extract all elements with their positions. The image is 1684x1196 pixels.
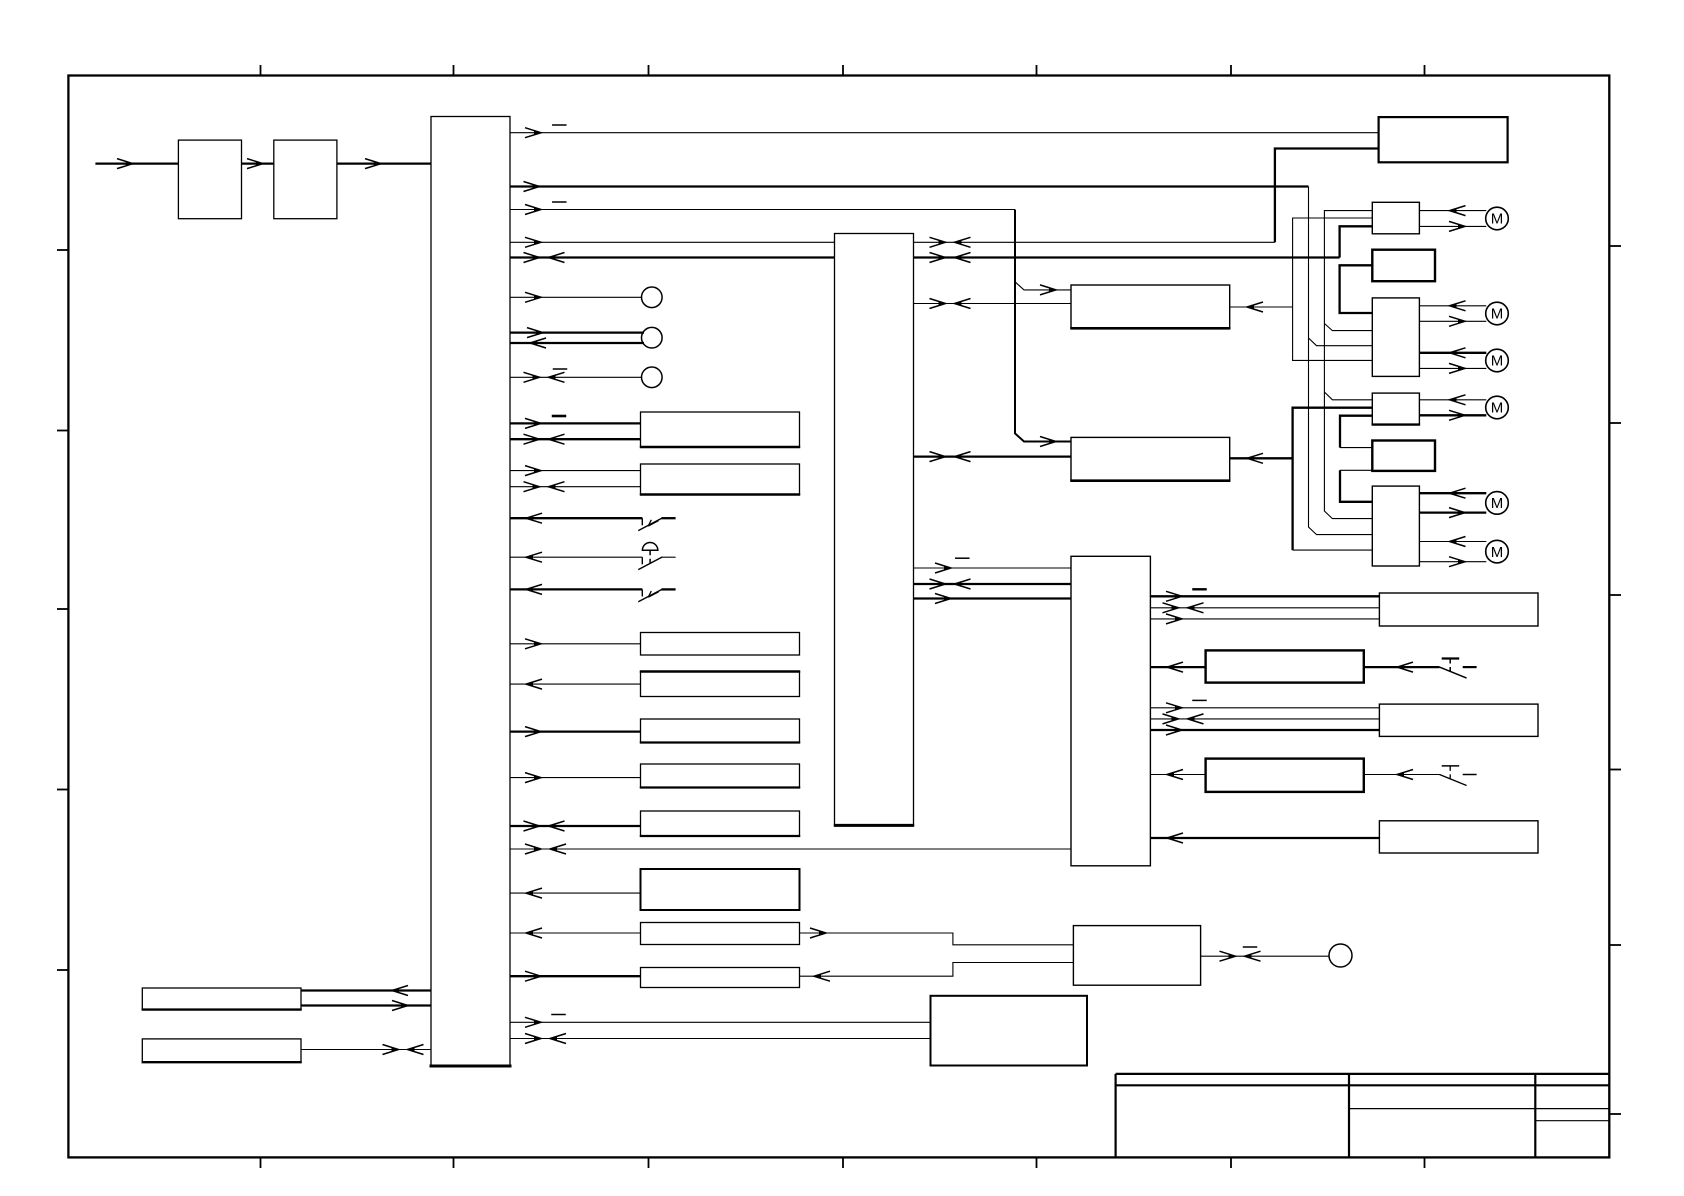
block driver D: [1372, 393, 1419, 425]
wire line1 to top box: [510, 132, 1379, 134]
block R3 right sensor: [1379, 704, 1538, 736]
block row4 sensor: [641, 672, 800, 697]
wire A to M1: [1419, 210, 1486, 212]
label overbar line25: [551, 1014, 566, 1016]
switch S1: [641, 518, 643, 525]
wire to row2 a: [510, 470, 641, 472]
lamp indicator 4: [1329, 944, 1352, 967]
block top-right module: [1379, 117, 1508, 162]
wire bus V2b relay2 to boxes D F: [1293, 408, 1373, 550]
block R4 right module: [1206, 759, 1364, 792]
block driver A: [1372, 202, 1419, 234]
block driver C: [1372, 298, 1419, 377]
wire to switch S1: [510, 517, 642, 519]
label overbar line1: [552, 124, 567, 126]
wire line3: [510, 209, 1015, 211]
motor M1: [1486, 207, 1509, 230]
switch S3: [641, 589, 643, 596]
block module B: [1372, 250, 1435, 282]
wire C to M3: [1419, 352, 1486, 354]
relay K2: [1071, 437, 1230, 480]
block X1 input filter: [178, 140, 241, 219]
block R2 right module: [1206, 650, 1364, 682]
wire G to lamp: [1201, 955, 1330, 957]
wire to row5: [510, 730, 641, 732]
wire R1 feed c: [1150, 618, 1379, 620]
block R1 right sensor: [1379, 593, 1538, 626]
wire L1 upper: [301, 989, 431, 991]
wire J2 to right unit pin1: [914, 567, 1072, 569]
wire tap to relay1: [1015, 282, 1071, 290]
wire R4 thermal line: [1364, 774, 1440, 776]
wire input line: [95, 162, 178, 164]
wire line6 to lamp: [510, 296, 642, 298]
wire R3 feed b: [1150, 718, 1379, 720]
wire to row4: [510, 683, 641, 685]
motor M3: [1486, 349, 1509, 372]
wire V1 top box feed: [1275, 149, 1379, 243]
label overbar R1: [1192, 588, 1207, 590]
lamp indicator 3: [642, 367, 663, 388]
wire R2 thermal line: [1364, 666, 1440, 668]
svg-text:M: M: [1491, 211, 1504, 228]
wire bus V2 relay1 to boxes A C: [1293, 218, 1373, 360]
wire R5 to unit: [1150, 837, 1379, 839]
block R5 right sensor: [1379, 821, 1538, 853]
wire line4 seg b: [914, 241, 1275, 243]
wire line25 to box H: [510, 1021, 931, 1023]
label overbar pin1: [955, 557, 970, 559]
border ruler ticks bottom: [260, 1157, 262, 1169]
title block frame: [1116, 1073, 1610, 1075]
thermal switch TS2: [1440, 775, 1467, 786]
wire bracket box E to box F: [1340, 469, 1372, 471]
block row9 sensor: [641, 923, 800, 945]
wire relay K1 output: [1230, 306, 1293, 308]
wire D to M4: [1419, 399, 1486, 401]
svg-text:M: M: [1491, 544, 1504, 561]
motor M2: [1486, 302, 1509, 325]
block row8 sensor: [641, 869, 800, 910]
wire line8 to lamp 3: [510, 376, 642, 378]
wire bracket line5 to box A: [1340, 226, 1373, 257]
wire J2 to right unit pin2: [914, 583, 1072, 585]
title block inner line right: [1535, 1120, 1609, 1122]
wire R3 feed a: [1150, 707, 1379, 709]
motor M5: [1486, 492, 1509, 515]
wire line5 seg b: [914, 256, 1340, 258]
connector J2 intermediate: [835, 234, 914, 826]
wire to row3: [510, 643, 641, 645]
label overbar R3: [1192, 699, 1207, 701]
relay K1: [1071, 285, 1230, 328]
wire bracket box D to box E: [1340, 416, 1372, 448]
wire line21 long to right unit: [510, 848, 1071, 850]
wire F to M6: [1419, 541, 1486, 543]
block H bottom module: [931, 996, 1088, 1066]
wire R1 feed b: [1150, 607, 1379, 609]
label overbar line3: [552, 201, 567, 203]
wire bracket box B to box C: [1340, 265, 1373, 313]
block row2 sensor: [641, 464, 800, 495]
wire line5 seg a: [510, 256, 835, 258]
border ruler ticks left: [57, 249, 70, 251]
svg-text:M: M: [1491, 306, 1504, 323]
block row6 sensor: [641, 764, 800, 788]
lamp indicator 1: [642, 287, 663, 308]
wire R4 to unit: [1150, 774, 1205, 776]
block row1 sensor: [641, 412, 800, 447]
arrow relay2 feed: [1040, 437, 1056, 447]
label overbar row1: [552, 415, 567, 418]
border ruler ticks right: [1609, 245, 1622, 247]
connector J1 main control unit: [431, 117, 510, 1067]
wire line4 seg a: [510, 241, 835, 243]
wire row10 to box G: [800, 963, 1074, 977]
block X2 input filter: [274, 140, 337, 219]
wire X2 to main connector: [337, 162, 431, 164]
wire L1 lower: [301, 1004, 431, 1006]
block L2 left sensor: [142, 1039, 301, 1062]
border ruler ticks top: [260, 65, 262, 77]
block row3 sensor: [641, 633, 800, 656]
wire R3 feed c: [1150, 729, 1379, 731]
wire to row7: [510, 825, 641, 827]
svg-text:M: M: [1491, 400, 1504, 417]
block row10 sensor: [641, 968, 800, 988]
lamp indicator 2: [642, 327, 663, 348]
block row7 sensor: [641, 811, 800, 836]
wire to switch S2 pushbutton: [510, 556, 642, 558]
wire line26 to box H: [510, 1038, 931, 1040]
block row5 sensor: [641, 719, 800, 743]
wire bus V4 boxA to C D F: [1324, 211, 1372, 519]
svg-text:M: M: [1491, 495, 1504, 512]
wire to row9: [510, 932, 641, 934]
title block inner line middle: [1349, 1108, 1609, 1110]
block module E: [1372, 441, 1435, 471]
wire L2: [301, 1049, 431, 1051]
wire J2 to relay2 coil: [914, 455, 1072, 457]
wire line2 power bus: [510, 185, 1309, 187]
wire R2 to unit: [1150, 666, 1205, 668]
wire to row8: [510, 892, 641, 894]
label overbar G: [1243, 946, 1258, 948]
block driver F: [1372, 486, 1419, 566]
wire line3 vertical drop: [1015, 210, 1071, 442]
wire X1 to X2: [242, 162, 274, 164]
wire C to M2: [1419, 305, 1486, 307]
wire F to M5: [1419, 492, 1486, 494]
thermal switch TS1: [1440, 667, 1467, 678]
label overbar line8: [553, 368, 568, 370]
motor M4: [1486, 396, 1509, 419]
wire to switch S3: [510, 588, 642, 590]
wire J2 to relay1 coil: [914, 303, 1072, 305]
switch S2 pushbutton: [641, 557, 643, 564]
wire relay K2 output: [1230, 457, 1293, 459]
wire bus V3 line2 to box C F: [1309, 187, 1373, 535]
block G control module: [1073, 926, 1200, 986]
svg-text:M: M: [1491, 353, 1504, 370]
wire row9 to box G: [800, 933, 1074, 945]
wire to row10: [510, 975, 641, 977]
wire to row1 a: [510, 422, 641, 424]
wire to row1 b: [510, 438, 641, 440]
wire line7 pair to lamp 2: [510, 331, 644, 333]
connector J3 right unit: [1071, 556, 1150, 866]
wire R1 feed a: [1150, 595, 1379, 597]
wire to row6: [510, 777, 641, 779]
wire to row2 b: [510, 486, 641, 488]
wire J2 to right unit pin3: [914, 597, 1072, 599]
block L1 left sensor: [142, 988, 301, 1010]
motor M6: [1486, 540, 1509, 563]
